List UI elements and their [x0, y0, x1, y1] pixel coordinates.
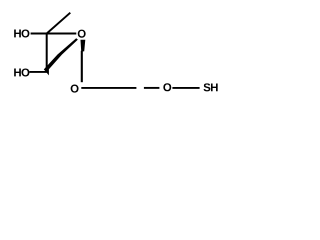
bold wedge bond O-C3 (thick vertical block under ring O) [81, 40, 86, 52]
wire bond HO-C2 (horizontal) [30, 71, 47, 73]
wire bond O-SH segment [172, 87, 199, 89]
atom label O (chain oxygen) [163, 83, 171, 91]
wire bond C1-C2 (vertical) [46, 34, 48, 71]
wire bond HO-C1 and C1-O ring (horizontal) [31, 33, 77, 35]
atom label O (bottom oxygen) [71, 85, 79, 93]
bold wedge bond C2-C3 (slim stereo wedge with arrowhead at C2) [44, 38, 78, 75]
atom label HO (top-left hydroxyl) [14, 29, 29, 37]
wire bond C1-CH3 (methyl diagonal) [47, 13, 71, 34]
atom label HO (bottom-left hydroxyl) [14, 68, 29, 76]
wire bond chain segment 2 [144, 87, 160, 89]
wire bond O-CH2 chain segment 1 [81, 87, 136, 89]
atom label SH (thiol) [204, 83, 218, 91]
atom label O (top-right ring oxygen) [78, 30, 86, 38]
wire bond C3-CH2 (vertical down to ester O) [81, 51, 83, 82]
